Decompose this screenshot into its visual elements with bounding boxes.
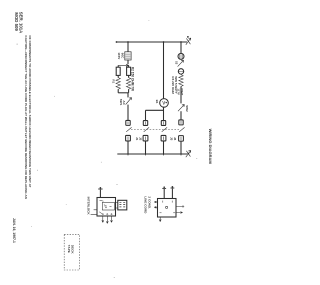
resistor R1 zigzag	[116, 78, 120, 90]
PL1 right pin a	[176, 205, 184, 207]
wire col4 drop from bus	[180, 42, 182, 53]
svg-text:B1: B1	[155, 100, 159, 104]
wire below TR1	[127, 60, 129, 64]
svg-text:TAPE: TAPE	[67, 245, 71, 253]
svg-text:OF COMPONENTS TO AVOID POSSIBL: OF COMPONENTS TO AVOID POSSIBLE ELECTRIC…	[28, 35, 32, 187]
socket P1 lower contact	[126, 135, 131, 141]
svg-text:SW2: SW2	[185, 105, 189, 112]
svg-text:LINE CORD: LINE CORD	[144, 196, 148, 214]
junction tick b3	[163, 153, 165, 156]
plug box PL1 outline	[158, 199, 177, 218]
socket P2 lower contact	[143, 135, 148, 141]
socket P3 lower contact	[161, 135, 166, 141]
wire F2 to R2	[128, 75, 130, 77]
wire col1 below merge	[127, 93, 129, 98]
switch blade S3a	[126, 127, 131, 131]
node L1 top supply bus	[116, 41, 187, 43]
SW1 bottom pin 2	[106, 216, 108, 223]
junction dot J1	[127, 41, 129, 43]
wire col4 to socket	[180, 111, 182, 120]
motor B1 circle	[160, 99, 169, 108]
wire col4 to bottom bus	[180, 141, 182, 154]
svg-text:INTERLOCK: INTERLOCK	[87, 197, 91, 216]
pilot lamp DS1	[178, 53, 184, 59]
svg-text:J2: J2	[138, 137, 142, 141]
PL1 top pin wire 1	[163, 189, 165, 199]
switch S1 blade horizontal with arrowhead	[118, 64, 129, 66]
wire below R2	[128, 89, 130, 93]
wire below R3	[180, 86, 182, 103]
switch blade S3d	[179, 127, 184, 131]
svg-text:DECK: DECK	[71, 245, 75, 255]
socket P4 lower contact	[179, 136, 184, 142]
wire SW1 to CN1	[116, 202, 118, 208]
junction dot J2	[163, 41, 165, 43]
switch blade S3b	[144, 127, 149, 131]
PL1 top terminal 1	[162, 187, 166, 189]
motor B1 inner mark	[163, 101, 165, 105]
wire below motor	[163, 107, 165, 120]
svg-text:MOD 509: MOD 509	[14, 12, 19, 31]
svg-text:R1: R1	[111, 79, 115, 83]
junction tick b4	[180, 153, 182, 156]
wire merge of R1 R2	[118, 92, 128, 94]
wire motor link horizontal	[146, 109, 164, 111]
wire right sub-branch	[128, 65, 130, 67]
svg-text:S3: S3	[174, 61, 178, 65]
svg-text:60C: 60C	[120, 53, 124, 59]
PL1 inner marks	[160, 201, 176, 213]
junction tick b2	[145, 153, 147, 156]
junction dot J3	[180, 41, 182, 43]
PL1 left pin b	[154, 206, 157, 208]
wire col3 to bottom bus	[163, 141, 165, 154]
SW1 top pin wire	[99, 190, 101, 198]
wire left sub-branch	[117, 65, 119, 67]
wire below R1	[117, 89, 119, 93]
svg-text:R2 150 OHM 7W: R2 150 OHM 7W	[131, 67, 135, 91]
paper specks	[31, 20, 197, 278]
svg-text:J4: J4	[173, 137, 177, 141]
switch box SW1 outline	[97, 198, 116, 217]
thermal fuse TR1 body	[125, 52, 131, 60]
node L2 bottom return bus	[117, 153, 187, 155]
svg-text:2 COND.: 2 COND.	[147, 196, 151, 209]
switch S4 blade	[178, 60, 184, 66]
resistor R3 zigzag	[179, 75, 183, 87]
switch S2 blade	[126, 98, 132, 105]
svg-text:CAUTION—DISCONNECT THE AC LINE: CAUTION—DISCONNECT THE AC LINE CORD PLUG…	[24, 35, 28, 198]
wire F1 to R1	[117, 75, 119, 77]
resistor R2 zigzag	[126, 78, 130, 90]
socket P2 upper contact	[143, 121, 147, 126]
switch S5 blade	[178, 104, 184, 111]
wire col1 to bottom bus	[127, 141, 129, 154]
switch box SW1 inner frame	[102, 202, 114, 210]
fuse F2 body	[127, 67, 131, 75]
wire col1 to socket	[127, 105, 129, 121]
SW1 bottom pin pads	[102, 214, 103, 215]
fuse F3 circle	[178, 69, 183, 74]
wire col2 to bottom bus	[145, 141, 147, 154]
connector CN1 outline	[118, 200, 127, 210]
PL1 inner contact circle	[166, 206, 168, 208]
PL1 top terminal 2	[171, 187, 175, 189]
stray dot left	[17, 44, 18, 45]
stray dot mid	[117, 184, 118, 185]
fuse F1 body	[116, 67, 120, 75]
svg-text:SER. 101A: SER. 101A	[19, 12, 24, 34]
PL1 left pin a	[154, 201, 157, 203]
PL1 top pin wire 2	[171, 189, 173, 199]
connection arrow top right	[186, 38, 191, 45]
svg-text:WIRING DIAGRAM: WIRING DIAGRAM	[208, 129, 213, 165]
connector CN1 contacts	[119, 202, 125, 207]
svg-text:60HZ: 60HZ	[180, 88, 184, 95]
connection arrow bottom right	[186, 150, 191, 157]
SW1 bottom pin 1	[102, 216, 104, 222]
switch blade S3c	[162, 127, 167, 131]
SW1 bottom pin 3	[111, 216, 113, 222]
SW1 left pin a	[91, 214, 97, 216]
junction tick b1	[127, 153, 129, 156]
wire col1 drop	[127, 42, 129, 52]
gang link dashed	[131, 128, 179, 130]
socket P4 upper contact	[179, 120, 183, 125]
svg-text:JAN. 16, 1967-1: JAN. 16, 1967-1	[12, 218, 16, 243]
socket P3 upper contact	[161, 121, 165, 126]
PL1 right pin b	[176, 212, 183, 214]
tape deck dashed enclosure	[64, 234, 79, 270]
wire col2 drop	[145, 110, 147, 120]
PL1 bottom pin	[159, 217, 161, 222]
wire col3 drop from bus	[163, 42, 165, 98]
SW1 left pin b	[94, 209, 97, 211]
switch box SW1 inner marks	[99, 200, 111, 214]
SW1 top terminal	[98, 188, 102, 190]
socket P1 upper contact	[126, 120, 130, 125]
